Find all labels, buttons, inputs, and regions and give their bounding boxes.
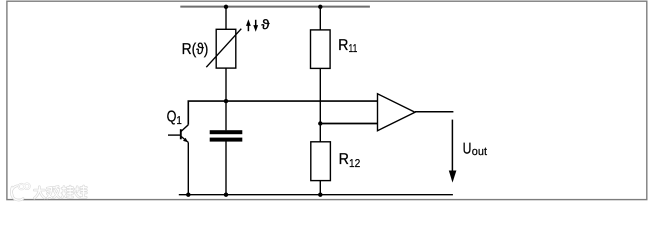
node: base wire crossing capacitor branch: [224, 99, 228, 103]
wire: top supply rail: [180, 6, 370, 8]
wire: Q1 emitter down to ground rail: [187, 142, 189, 194]
resistor R12: [311, 142, 331, 181]
svg-text:Q: Q: [167, 108, 177, 125]
svg-text:ϑ: ϑ: [261, 17, 270, 32]
wire: capacitor bottom to ground rail: [225, 142, 227, 195]
wire: R(theta) bottom through node to capacitor top: [225, 68, 227, 130]
wire: Q1 collector up and right to op-amp non-inverting input: [188, 101, 377, 125]
wire: bottom ground rail: [179, 194, 453, 196]
voltage arrow Uout: [449, 120, 457, 183]
transistor Q1 (NPN): [168, 125, 188, 143]
svg-text:11: 11: [349, 43, 358, 55]
svg-text:1: 1: [176, 115, 182, 127]
op-amp: [378, 94, 416, 131]
wire: divider node down to R12: [319, 124, 321, 142]
node: capacitor / ground rail: [224, 193, 228, 197]
resistor R11: [311, 30, 331, 69]
capacitor: [210, 130, 243, 141]
svg-text:U: U: [463, 141, 472, 158]
svg-text:12: 12: [349, 158, 360, 170]
node: R11/R12 divider junction: [318, 121, 322, 125]
wire: R11 bottom to divider node: [319, 68, 321, 123]
temperature arrows ↑↓ and label ϑ: [246, 17, 270, 32]
wire: top rail down to R11: [319, 7, 321, 30]
wire: top rail down to R(theta): [225, 7, 227, 30]
svg-text:R: R: [339, 151, 349, 168]
wire: R12 bottom to ground rail: [319, 181, 321, 195]
node: top rail / R11 branch: [318, 5, 322, 9]
wire: op-amp output: [415, 111, 453, 113]
svg-text:R(ϑ): R(ϑ): [182, 41, 209, 58]
node: top rail / R(theta) branch: [224, 5, 228, 9]
node: R12 / ground rail: [318, 193, 322, 197]
wire: divider node to op-amp inverting input: [320, 123, 377, 125]
svg-text:out: out: [472, 146, 488, 158]
thermistor R(ϑ): [206, 29, 241, 68]
svg-text:R: R: [338, 37, 348, 54]
node: emitter / ground rail: [186, 193, 190, 197]
